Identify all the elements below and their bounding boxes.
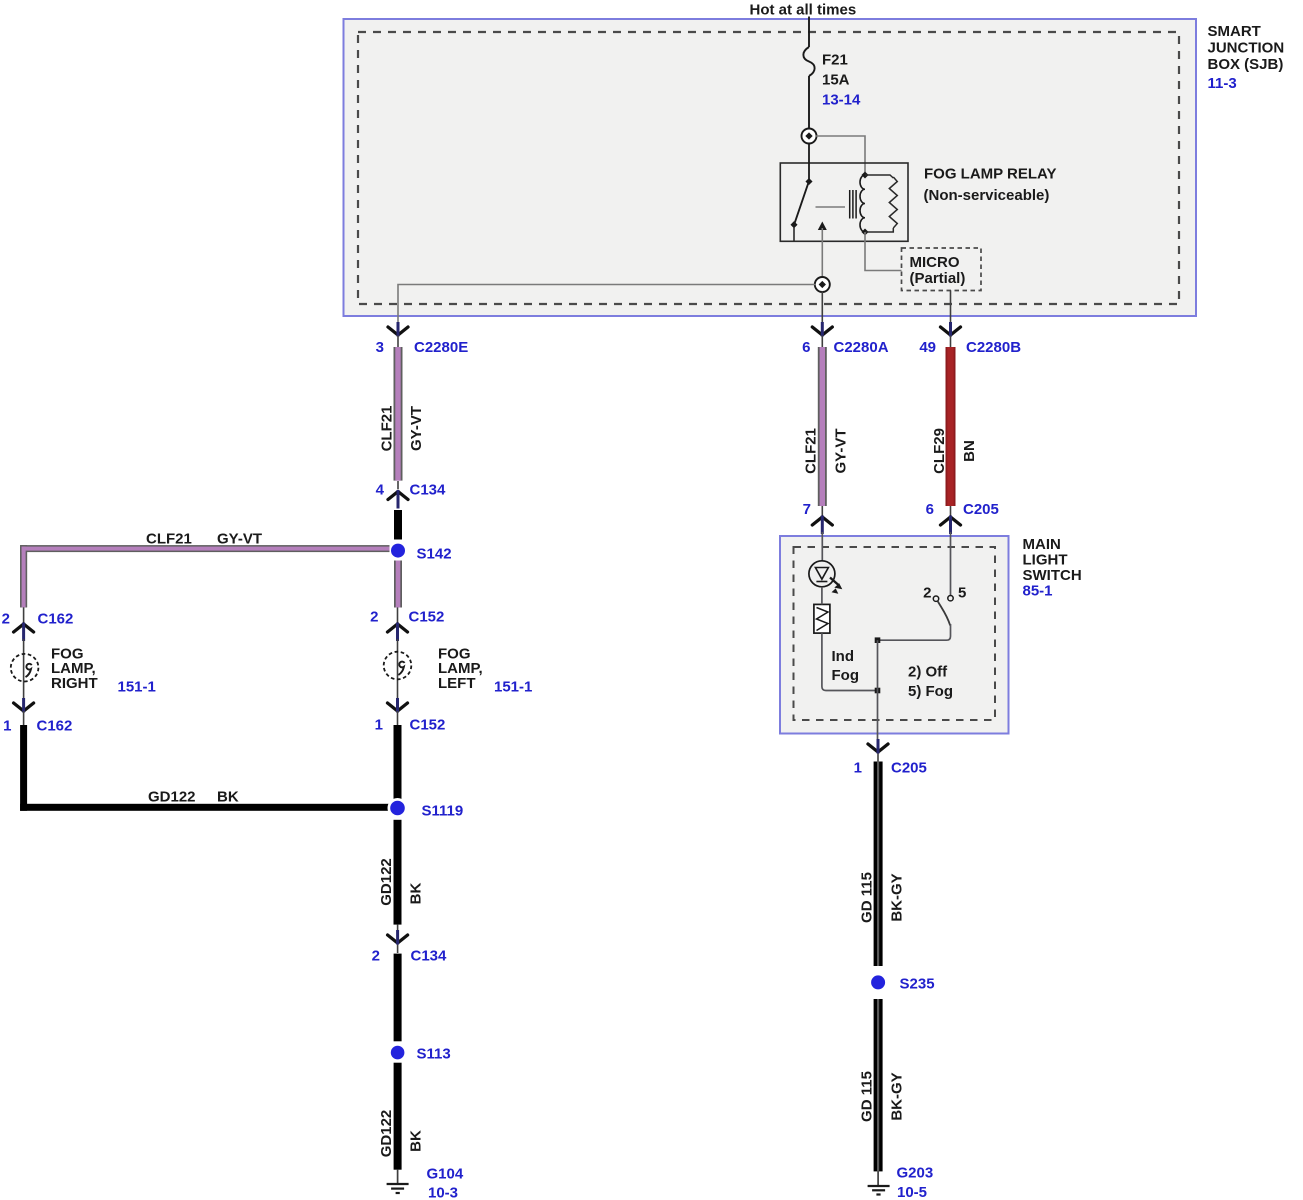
wire: MLS output stem	[877, 640, 879, 744]
wire: pin7 stem into MLS	[821, 532, 823, 561]
svg-text:GD122: GD122	[148, 789, 196, 806]
wire: switch to output node	[878, 624, 951, 640]
connector arrow C134 down	[388, 925, 408, 953]
wire CLF21 GY-VT (C2280A to MLS)	[818, 347, 827, 506]
svg-text:BK: BK	[408, 1130, 425, 1152]
MLS label	[1023, 536, 1082, 600]
svg-text:C2280E: C2280E	[414, 339, 468, 356]
svg-text:CLF21: CLF21	[146, 531, 192, 548]
relay coil	[860, 171, 869, 235]
wire into left fog lamp	[397, 639, 399, 700]
wire: pin6 stem into MLS	[950, 532, 952, 596]
svg-text:GY-VT: GY-VT	[408, 406, 425, 451]
ground G104	[387, 1170, 409, 1193]
svg-text:F21: F21	[822, 52, 848, 69]
connector arrow C134 up	[388, 481, 408, 509]
svg-text:3: 3	[376, 339, 384, 356]
svg-text:GD 115: GD 115	[859, 1071, 876, 1122]
svg-text:SMART: SMART	[1208, 23, 1261, 40]
smart junction box SJB outline	[344, 19, 1197, 316]
switch blade	[938, 601, 950, 625]
svg-text:13-14: 13-14	[822, 92, 861, 109]
svg-text:6: 6	[926, 501, 934, 518]
svg-text:(Non-serviceable): (Non-serviceable)	[924, 187, 1050, 204]
relay actuator link	[816, 206, 846, 208]
svg-text:JUNCTION: JUNCTION	[1208, 40, 1285, 57]
svg-text:C152: C152	[410, 717, 446, 734]
svg-text:BK: BK	[408, 883, 425, 905]
svg-text:GY-VT: GY-VT	[833, 428, 850, 473]
connector arrow C205 down	[868, 739, 888, 762]
wire GD 115 BK-GY (C205 to S235)	[874, 762, 883, 967]
svg-text:151-1: 151-1	[118, 679, 156, 696]
wire: fuse to junction	[808, 76, 810, 129]
svg-text:C162: C162	[37, 718, 73, 735]
wire: lower contact stem	[793, 228, 795, 242]
svg-text:MICRO: MICRO	[910, 254, 960, 271]
wire GD 115 BK-GY (S235 to G203)	[874, 999, 883, 1171]
node: switch branch junction	[875, 637, 881, 643]
connector arrow C152 down	[388, 698, 408, 713]
svg-text:C2280A: C2280A	[834, 339, 889, 356]
junction connector (fuse output)	[802, 129, 817, 144]
svg-text:7: 7	[803, 501, 811, 518]
svg-text:1: 1	[3, 718, 11, 735]
svg-text:C205: C205	[963, 501, 999, 518]
svg-text:GD122: GD122	[378, 1110, 395, 1158]
svg-text:GD122: GD122	[378, 858, 395, 906]
fog lamp right label	[51, 646, 156, 696]
svg-text:151-1: 151-1	[494, 679, 532, 696]
wire: C152 to S1119 (black)	[394, 725, 402, 800]
svg-text:GY-VT: GY-VT	[217, 531, 262, 548]
switch terminal 2	[933, 596, 938, 601]
fog lamp left label	[438, 646, 532, 696]
svg-text:6: 6	[802, 339, 810, 356]
svg-text:BK-GY: BK-GY	[889, 1072, 906, 1120]
svg-text:1: 1	[375, 717, 383, 734]
wire: S1119 to C134 (black)	[394, 820, 402, 925]
relay core	[850, 190, 856, 219]
svg-text:BK-GY: BK-GY	[889, 873, 906, 921]
wire: stem wire to pin6 arrow	[950, 506, 952, 518]
svg-text:C152: C152	[409, 609, 445, 626]
node: LED branch junction	[875, 688, 881, 694]
svg-text:S235: S235	[900, 976, 935, 993]
connector arrow C2280E	[388, 322, 408, 337]
svg-text:FOG LAMP RELAY: FOG LAMP RELAY	[924, 166, 1057, 183]
indicator LED	[809, 561, 842, 594]
wire CLF21 GY-VT (C2280E to C134)	[394, 347, 403, 481]
svg-text:2: 2	[372, 948, 380, 965]
connector arrow C162 down	[14, 698, 34, 713]
svg-text:11-3: 11-3	[1208, 75, 1237, 92]
splice S113	[388, 1043, 407, 1062]
wire: right lamp leg C162 (GY-VT vertical)	[20, 551, 27, 608]
wire: S113 to G104 (black)	[394, 1063, 402, 1170]
wire: stem C2280B arrow to wire	[950, 336, 952, 349]
SJB inner dashed border	[358, 32, 1179, 304]
svg-text:MAIN: MAIN	[1023, 536, 1061, 553]
svg-text:C134: C134	[411, 948, 448, 965]
relay switch blade	[795, 183, 809, 224]
wire CLF21 GY-VT horizontal (S142 to right fog lamp)	[20, 545, 389, 607]
svg-text:2) Off: 2) Off	[908, 664, 948, 681]
connector arrow C162 up	[14, 607, 34, 641]
wire: C134 to S113 (black)	[394, 954, 402, 1042]
wire: C134 to S142 (black)	[394, 510, 402, 540]
svg-text:S142: S142	[417, 546, 452, 563]
svg-text:10-5: 10-5	[897, 1184, 927, 1200]
ground G203	[868, 1171, 890, 1194]
wire: LED to resistor	[821, 587, 823, 605]
svg-text:49: 49	[919, 339, 936, 356]
svg-text:LIGHT: LIGHT	[1023, 552, 1068, 569]
splice S1119	[388, 798, 408, 818]
wire GD122 BK (right lamp to S1119)	[20, 725, 397, 811]
wire: S142 down to C152 (GY-VT)	[394, 561, 402, 608]
connector arrow C152 up	[388, 607, 408, 641]
position legend	[908, 664, 953, 701]
svg-text:S1119: S1119	[422, 803, 464, 820]
micro module box	[902, 248, 982, 291]
relay coil suppression resistor	[865, 175, 897, 232]
svg-text:LEFT: LEFT	[438, 675, 476, 692]
svg-text:BK: BK	[217, 789, 239, 806]
svg-text:BN: BN	[961, 440, 978, 462]
fog lamp right bulb	[11, 654, 39, 682]
svg-text:2: 2	[370, 609, 378, 626]
svg-text:15A: 15A	[822, 72, 850, 89]
wire: internal bus to left exit	[398, 285, 816, 331]
svg-text:CLF29: CLF29	[931, 428, 948, 474]
wire: battery feed into SJB	[808, 17, 810, 48]
Ind Fog label	[832, 648, 860, 684]
wire into right fog lamp	[23, 639, 25, 700]
connector arrow C2280B	[941, 322, 961, 337]
fog lamp left bulb	[384, 652, 412, 680]
SJB label	[1208, 23, 1285, 92]
svg-text:C205: C205	[891, 760, 927, 777]
svg-text:85-1: 85-1	[1023, 583, 1053, 600]
junction connector (relay output)	[815, 277, 830, 292]
relay common pole arrow	[818, 222, 827, 285]
svg-text:4: 4	[376, 482, 385, 499]
svg-text:G203: G203	[897, 1165, 934, 1182]
svg-text:BOX (SJB): BOX (SJB)	[1208, 56, 1284, 73]
wire: C2280B exit from micro	[950, 290, 952, 330]
wire: resistor down and right to output node	[822, 633, 878, 690]
svg-text:S113: S113	[417, 1046, 451, 1063]
svg-text:2: 2	[2, 611, 10, 628]
wire: stem C162 arrow to wire	[23, 711, 25, 726]
relay switch pivot pin	[805, 178, 812, 185]
svg-text:CLF21: CLF21	[803, 428, 820, 474]
connector arrow C2280A	[812, 322, 832, 337]
switch terminal 5	[948, 596, 953, 601]
wire CLF29 BN (C2280B to MLS)	[946, 347, 956, 506]
svg-text:C2280B: C2280B	[966, 339, 1021, 356]
connector arrow MLS pin 6 up	[941, 516, 961, 535]
svg-text:2: 2	[923, 585, 931, 602]
svg-text:10-3: 10-3	[428, 1185, 458, 1200]
svg-text:CLF21: CLF21	[379, 406, 396, 452]
connector arrow MLS pin 7 up	[812, 516, 832, 535]
svg-text:RIGHT: RIGHT	[51, 675, 98, 692]
svg-text:Hot at all times: Hot at all times	[750, 2, 857, 19]
splice S235	[868, 973, 888, 993]
svg-text:SWITCH: SWITCH	[1023, 567, 1082, 584]
svg-text:C134: C134	[410, 482, 447, 499]
wire: coil return to micro	[865, 232, 902, 271]
svg-text:Ind: Ind	[832, 648, 855, 665]
wire: junction to relay coil	[816, 136, 865, 172]
relay box	[780, 163, 908, 241]
relay switch lower contact pin	[790, 221, 797, 228]
wire: junction into relay switch pivot	[808, 143, 810, 179]
svg-text:1: 1	[854, 760, 862, 777]
fuse F21 15A	[803, 47, 814, 76]
svg-text:Fog: Fog	[832, 667, 860, 684]
svg-text:C162: C162	[38, 611, 74, 628]
svg-text:5) Fog: 5) Fog	[908, 683, 953, 700]
svg-text:5: 5	[958, 585, 966, 602]
svg-text:GD 115: GD 115	[859, 872, 876, 923]
wire: stem wire to pin7 arrow	[821, 506, 823, 518]
wire: stem C152 arrow to wire	[397, 711, 399, 726]
wire: stem C2280E arrow to wire	[397, 336, 399, 349]
main light switch box	[780, 536, 1009, 734]
wire: stem C2280A arrow to wire	[821, 336, 823, 349]
splice S142	[388, 541, 408, 561]
svg-text:G104: G104	[427, 1166, 464, 1183]
LED series resistor	[814, 604, 830, 633]
MLS inner dashed border	[794, 547, 996, 720]
wire: C2280A exit	[821, 291, 823, 330]
svg-text:(Partial): (Partial)	[910, 270, 966, 287]
